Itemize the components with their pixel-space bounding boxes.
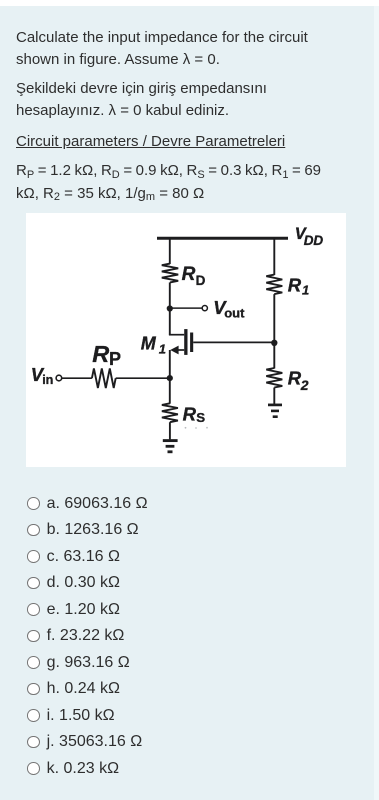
ground (left, below RS) xyxy=(163,439,178,442)
svg-text:M: M xyxy=(141,333,157,353)
wire: source down to RP node xyxy=(169,350,171,404)
svg-text:D: D xyxy=(196,272,206,287)
svg-text:S: S xyxy=(196,410,205,425)
wire: RD to drain xyxy=(169,282,171,334)
ground (right, below R2) xyxy=(268,403,282,406)
transistor M1 source arrow xyxy=(170,345,178,354)
node gate/R1/R2 junction dot xyxy=(271,339,277,345)
transistor M1 drain stub xyxy=(169,333,184,335)
wire: R1 to gate node xyxy=(273,294,275,368)
wire: R2 to ground xyxy=(273,387,275,404)
wire: gate to R1/R2 node xyxy=(193,341,274,343)
node Vout junction dot xyxy=(167,305,173,311)
node source/RP junction dot xyxy=(167,375,173,381)
svg-text:in: in xyxy=(42,373,53,387)
Vin open terminal xyxy=(56,375,62,381)
resistor RP xyxy=(92,368,116,388)
wire: RS to ground xyxy=(169,422,171,439)
svg-text:2: 2 xyxy=(300,376,309,392)
svg-text:P: P xyxy=(109,349,121,369)
resistor RD xyxy=(162,263,178,282)
white top strip xyxy=(0,0,379,6)
svg-text:R: R xyxy=(288,274,302,295)
svg-text:DD: DD xyxy=(304,232,324,247)
wire: Vin to RP xyxy=(62,377,92,379)
svg-text:out: out xyxy=(224,305,245,320)
transistor M1 channel bar xyxy=(184,329,187,355)
transistor M1 source stub xyxy=(177,349,185,351)
svg-text:R: R xyxy=(288,367,302,388)
wire: VDD rail to R1 xyxy=(273,238,275,275)
wire: Vout tap xyxy=(170,307,202,309)
Vout open terminal xyxy=(202,305,207,310)
VDD top rail xyxy=(157,236,288,239)
transistor M1 gate plate xyxy=(190,332,193,352)
svg-text:1: 1 xyxy=(159,341,166,356)
svg-text:R: R xyxy=(182,264,196,285)
svg-text:R: R xyxy=(92,341,109,367)
svg-text:1: 1 xyxy=(302,282,309,297)
resistor R2 xyxy=(266,368,282,388)
answer options xyxy=(27,490,148,782)
resistor R1 xyxy=(266,274,282,294)
circuit figure xyxy=(26,213,346,468)
wire: RP to node xyxy=(116,377,170,379)
svg-text:R: R xyxy=(183,403,197,424)
scan artifact dots xyxy=(185,426,187,428)
resistor RS xyxy=(162,403,178,422)
wire: VDD rail to RD xyxy=(169,238,171,264)
